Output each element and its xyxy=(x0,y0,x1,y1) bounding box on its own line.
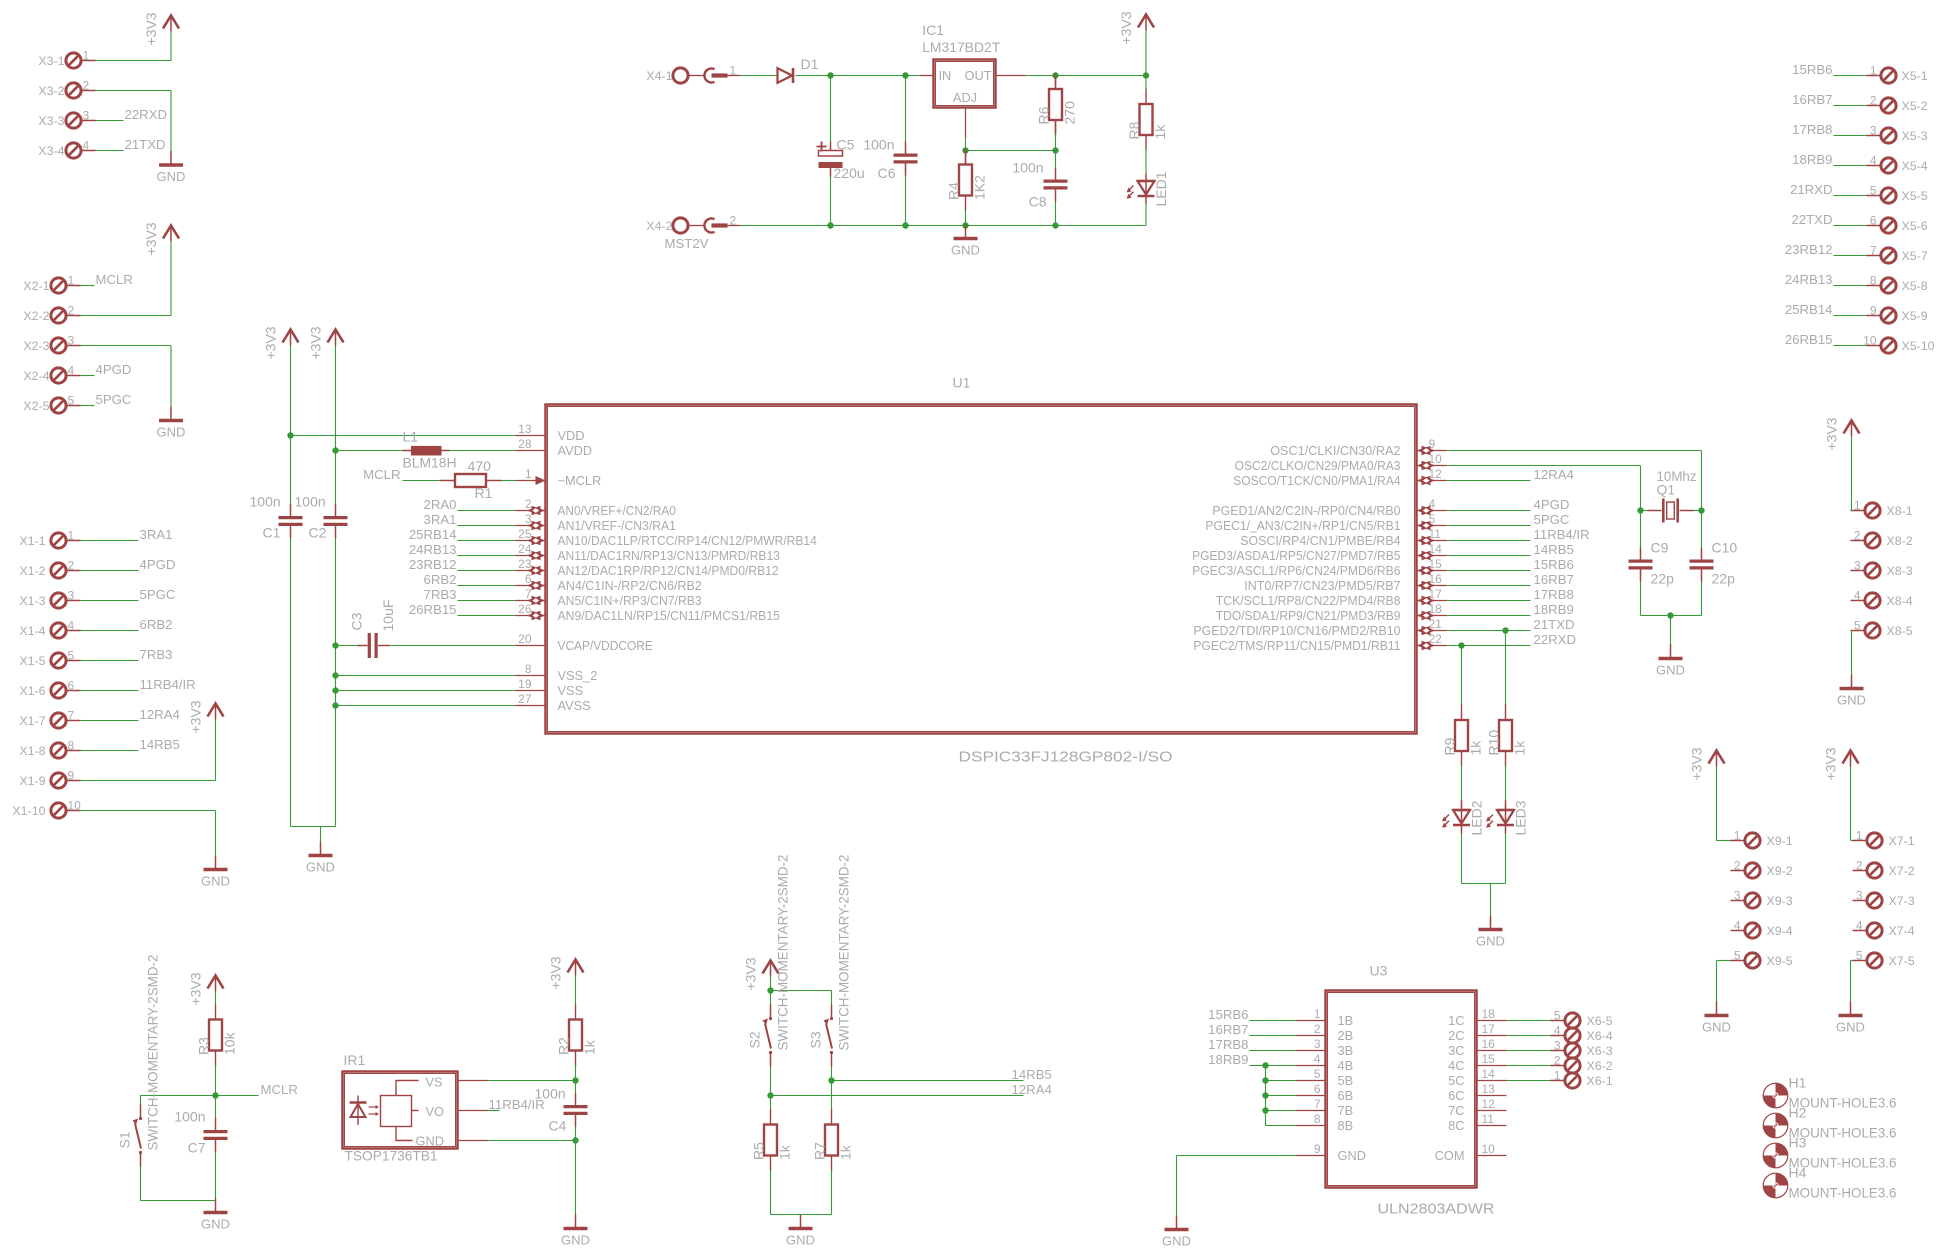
svg-text:1k: 1k xyxy=(1468,740,1484,756)
svg-text:R9: R9 xyxy=(1442,737,1458,755)
svg-text:21TXD: 21TXD xyxy=(1534,617,1575,632)
wire OSC1 to crystal xyxy=(1447,450,1702,452)
voltage regulator IC1 (LM317BD2T) xyxy=(922,22,1000,108)
capacitor C3 (10uF) xyxy=(349,600,397,658)
svg-text:TDO/SDA1/RP9/CN21/PMD3/RB9: TDO/SDA1/RP9/CN21/PMD3/RB9 xyxy=(1216,608,1401,623)
ground under C4 xyxy=(561,1215,590,1248)
svg-text:+3V3: +3V3 xyxy=(1823,747,1839,780)
svg-text:X1-2: X1-2 xyxy=(19,564,45,578)
svg-text:MCLR: MCLR xyxy=(261,1082,298,1097)
switch S3 (SWITCH-MOMENTARY-2SMD-2) xyxy=(808,854,852,1066)
svg-text:16RB7: 16RB7 xyxy=(1792,92,1832,107)
wire R5/R7 GND join xyxy=(771,1214,832,1216)
svg-text:5: 5 xyxy=(1870,184,1877,198)
svg-text:15RB6: 15RB6 xyxy=(1792,62,1832,77)
svg-text:X5-2: X5-2 xyxy=(1902,99,1928,113)
svg-text:11RB4/IR: 11RB4/IR xyxy=(140,677,196,692)
U1 pin 2 (AN0/VREF+/CN2/RA0) xyxy=(516,497,676,518)
svg-text:18: 18 xyxy=(1429,602,1443,616)
U1 pin 11 (SOSCI/RP4/CN1/PMBE/RB4) xyxy=(1240,527,1446,548)
node ADJ/R4 xyxy=(962,147,968,153)
svg-text:X1-9: X1-9 xyxy=(19,774,45,788)
svg-text:GND: GND xyxy=(306,860,335,875)
U1 pin 8 (VSS_2) xyxy=(516,662,598,683)
svg-text:C8: C8 xyxy=(1029,194,1047,210)
svg-text:14RB5: 14RB5 xyxy=(1012,1067,1052,1082)
svg-text:3: 3 xyxy=(1856,889,1863,903)
svg-text:5: 5 xyxy=(1734,949,1741,963)
connector pad X5-9 xyxy=(1867,304,1928,324)
node rail C5 xyxy=(827,222,833,228)
svg-text:X1-1: X1-1 xyxy=(19,534,45,548)
wire X1-9 to +3V3 xyxy=(81,780,216,782)
U3 pin 16 (3C) xyxy=(1448,1037,1506,1058)
svg-text:100n: 100n xyxy=(295,494,326,510)
wire C7 bottom xyxy=(215,1152,217,1201)
connector pad X1-6 xyxy=(19,679,80,699)
svg-text:DSPIC33FJ128GP802-I/SO: DSPIC33FJ128GP802-I/SO xyxy=(959,749,1173,766)
svg-text:ADJ: ADJ xyxy=(953,90,977,105)
svg-text:220u: 220u xyxy=(834,165,865,181)
wire C7 top xyxy=(215,1096,217,1119)
node R6/C8 xyxy=(1052,147,1058,153)
power +3V3 at C2 xyxy=(308,326,344,359)
wire net 11RB4/IR from IR1 VO xyxy=(488,1110,500,1112)
connector pad X2-1 xyxy=(23,274,80,294)
svg-text:15: 15 xyxy=(1482,1052,1496,1066)
U3 pin 14 (5C) xyxy=(1448,1067,1506,1088)
switch S1 (SWITCH-MOMENTARY-2SMD-2) xyxy=(117,954,161,1166)
svg-text:AN9/DAC1LN/RP15/CN11/PMCS1/RB1: AN9/DAC1LN/RP15/CN11/PMCS1/RB15 xyxy=(558,608,780,623)
svg-text:12: 12 xyxy=(1482,1097,1496,1111)
svg-text:7C: 7C xyxy=(1448,1103,1464,1118)
node VDD branch xyxy=(287,432,293,438)
svg-text:GND: GND xyxy=(786,1233,815,1248)
ground under R5/R7 xyxy=(786,1215,815,1248)
svg-text:X4-1: X4-1 xyxy=(646,69,672,83)
U1 pin 14 (PGED3/ASDA1/RP5/CN27/PMD7/RB5) xyxy=(1192,542,1446,563)
connector pad X2-3 xyxy=(23,334,80,354)
wire S3 to 14RB5 node xyxy=(831,1067,833,1081)
svg-text:R7: R7 xyxy=(812,1142,828,1160)
wire net 4PGD from X1-2 xyxy=(81,570,139,572)
svg-text:6B: 6B xyxy=(1338,1088,1354,1103)
svg-text:MST2V: MST2V xyxy=(665,236,709,251)
LED LED3 xyxy=(1486,800,1529,835)
connector pad X6-3 xyxy=(1551,1039,1613,1059)
svg-text:100n: 100n xyxy=(174,1109,205,1125)
resistor R6 (270) xyxy=(1036,74,1078,136)
wire R2 to VS node xyxy=(575,1065,577,1081)
ground power rail xyxy=(951,225,980,258)
svg-text:2: 2 xyxy=(525,497,532,511)
connector pad X5-2 xyxy=(1867,94,1928,114)
resistor R1 (470) xyxy=(440,458,502,501)
wire net 22TXD to X5-6 xyxy=(1834,225,1867,227)
wire X3-1 to +3V3 xyxy=(96,60,172,62)
svg-text:X2-2: X2-2 xyxy=(23,309,49,323)
node VSS_2 branch xyxy=(332,672,338,678)
svg-text:GND: GND xyxy=(561,1233,590,1248)
node R9 branch on 22RXD xyxy=(1458,642,1464,648)
wire ground rail X4-2 to LED1 xyxy=(741,225,1147,227)
wire +3V3 to C1 column xyxy=(290,346,292,436)
svg-text:U1: U1 xyxy=(953,375,971,391)
svg-text:22RXD: 22RXD xyxy=(125,107,168,122)
svg-text:H1: H1 xyxy=(1789,1075,1807,1091)
svg-text:2RA0: 2RA0 xyxy=(424,497,457,512)
svg-text:5PGC: 5PGC xyxy=(140,587,176,602)
wire net 15RB6 from U1 xyxy=(1447,570,1531,572)
resistor R10 (1k) xyxy=(1486,705,1528,767)
svg-text:7: 7 xyxy=(1870,244,1877,258)
svg-text:X3-1: X3-1 xyxy=(38,54,64,68)
svg-text:22RXD: 22RXD xyxy=(1534,632,1577,647)
mount hole H3 (MOUNT-HOLE3.6) xyxy=(1763,1143,1788,1168)
svg-text:5B: 5B xyxy=(1338,1073,1354,1088)
svg-text:6: 6 xyxy=(1314,1082,1321,1096)
svg-text:X1-3: X1-3 xyxy=(19,594,45,608)
svg-text:R5: R5 xyxy=(751,1142,767,1160)
node AVSS branch xyxy=(332,702,338,708)
svg-text:MCLR: MCLR xyxy=(363,467,400,482)
svg-text:X5-3: X5-3 xyxy=(1902,129,1928,143)
svg-text:X6-3: X6-3 xyxy=(1587,1044,1613,1058)
svg-text:3RA1: 3RA1 xyxy=(140,527,173,542)
svg-text:X9-5: X9-5 xyxy=(1767,954,1793,968)
svg-text:GND: GND xyxy=(1837,693,1866,708)
svg-text:X1-7: X1-7 xyxy=(19,714,45,728)
svg-text:24: 24 xyxy=(518,542,532,556)
svg-text:GND: GND xyxy=(951,243,980,258)
svg-text:6RB2: 6RB2 xyxy=(424,572,457,587)
svg-text:+3V3: +3V3 xyxy=(143,222,159,255)
wire net 17RB8 to X5-3 xyxy=(1834,135,1867,137)
connector pad X3-4 xyxy=(38,139,95,159)
svg-text:13: 13 xyxy=(518,422,532,436)
power +3V3 near X7 xyxy=(1823,747,1859,780)
node R2/C4/VS xyxy=(572,1077,578,1083)
node R10 branch on 21TXD xyxy=(1502,627,1508,633)
wire C4 to GND xyxy=(575,1141,577,1215)
wire U3 GND pin xyxy=(1177,1155,1296,1157)
connector pad X1-1 xyxy=(19,529,80,549)
svg-text:100n: 100n xyxy=(250,494,281,510)
svg-text:H4: H4 xyxy=(1789,1165,1807,1181)
connector pad X8-3 xyxy=(1851,559,1913,579)
svg-text:12RA4: 12RA4 xyxy=(1012,1082,1052,1097)
svg-text:27: 27 xyxy=(518,692,532,706)
wire net 14RB5 xyxy=(832,1080,1024,1082)
node C3 branch xyxy=(332,642,338,648)
U1 pin 18 (TDO/SDA1/RP9/CN21/PMD3/RB9) xyxy=(1216,602,1447,623)
svg-text:S3: S3 xyxy=(808,1031,824,1048)
svg-text:5C: 5C xyxy=(1448,1073,1464,1088)
U1 pin 27 (AVSS) xyxy=(516,692,591,713)
svg-text:21TXD: 21TXD xyxy=(125,137,166,152)
svg-text:SWITCH-MOMENTARY-2SMD-2: SWITCH-MOMENTARY-2SMD-2 xyxy=(836,854,852,1050)
svg-text:14: 14 xyxy=(1482,1067,1496,1081)
svg-text:5: 5 xyxy=(68,649,75,663)
capacitor C1 xyxy=(279,504,303,538)
svg-text:8: 8 xyxy=(68,739,75,753)
svg-text:PGEC1/_AN3/C2IN+/RP1/CN5/RB1: PGEC1/_AN3/C2IN+/RP1/CN5/RB1 xyxy=(1205,518,1400,533)
svg-text:+3V3: +3V3 xyxy=(308,326,324,359)
U3 pin 15 (4C) xyxy=(1448,1052,1506,1073)
svg-text:3: 3 xyxy=(1314,1037,1321,1051)
svg-text:4: 4 xyxy=(1734,919,1741,933)
resistor R3 (10k) xyxy=(196,1004,238,1066)
U3 pin 1 (1B) xyxy=(1296,1007,1354,1028)
driver U3 (ULN2803ADWR) xyxy=(1326,963,1495,1218)
svg-text:18: 18 xyxy=(1482,1007,1496,1021)
U1 pin 20 (VCAP/VDDCORE) xyxy=(516,632,653,653)
U1 pin 17 (TCK/SCL1/RP8/CN22/PMD4/RB8) xyxy=(1216,587,1447,608)
wire X4-1 to D1 xyxy=(741,75,778,77)
svg-text:22p: 22p xyxy=(1651,571,1675,587)
node OSC2/C9/crystal xyxy=(1637,507,1643,513)
svg-text:X6-2: X6-2 xyxy=(1587,1059,1613,1073)
svg-text:X7-5: X7-5 xyxy=(1889,954,1915,968)
wire net 16RB7 from U1 xyxy=(1447,585,1531,587)
U1 pin 12 (SOSCO/T1CK/CN0/PMA1/RA4) xyxy=(1233,467,1446,488)
svg-text:8B: 8B xyxy=(1338,1118,1354,1133)
svg-text:X7-2: X7-2 xyxy=(1889,864,1915,878)
svg-text:GND: GND xyxy=(1162,1234,1191,1249)
svg-text:OSC1/CLKI/CN30/RA2: OSC1/CLKI/CN30/RA2 xyxy=(1270,443,1400,458)
svg-text:25RB14: 25RB14 xyxy=(409,527,457,542)
svg-text:10: 10 xyxy=(1429,452,1443,466)
svg-text:4: 4 xyxy=(83,139,90,153)
power +3V3 near X1 xyxy=(188,700,224,733)
svg-text:1: 1 xyxy=(1314,1007,1321,1021)
svg-text:X9-3: X9-3 xyxy=(1767,894,1793,908)
svg-text:9: 9 xyxy=(1314,1142,1321,1156)
svg-text:VSS_2: VSS_2 xyxy=(558,668,598,683)
svg-text:R10: R10 xyxy=(1486,730,1502,756)
node rail C8 xyxy=(1052,222,1058,228)
svg-text:5PGC: 5PGC xyxy=(96,392,132,407)
svg-text:X5-6: X5-6 xyxy=(1902,219,1928,233)
svg-text:3: 3 xyxy=(83,109,90,123)
wire net MCLR from X2-1 xyxy=(81,285,95,287)
svg-text:1: 1 xyxy=(1870,64,1877,78)
wire X3-2 to GND xyxy=(96,90,172,92)
svg-text:4: 4 xyxy=(68,619,75,633)
svg-text:21: 21 xyxy=(1429,617,1443,631)
svg-text:AN10/DAC1LP/RTCC/RP14/CN12/PMW: AN10/DAC1LP/RTCC/RP14/CN12/PMWR/RB14 xyxy=(558,533,817,548)
wire C9/C10 to GND xyxy=(1640,582,1642,616)
wire S2 node to R5 xyxy=(770,1096,772,1110)
wire C10 top xyxy=(1701,511,1703,548)
U1 pin 7 (AN5/C1IN+/RP3/CN7/RB3) xyxy=(516,587,702,608)
connector pad X9-3 xyxy=(1731,889,1793,909)
wire C2 top xyxy=(335,451,337,505)
wire LED1 leads xyxy=(1145,174,1147,182)
svg-text:X5-9: X5-9 xyxy=(1902,309,1928,323)
svg-text:2B: 2B xyxy=(1338,1028,1354,1043)
node 18RB9 chain at 1110 xyxy=(1262,1107,1268,1113)
wire net 15RB6 to X5-1 xyxy=(1834,75,1867,77)
svg-text:17: 17 xyxy=(1429,587,1443,601)
connector pin X4-2 xyxy=(646,214,740,234)
connector pad X5-4 xyxy=(1867,154,1928,174)
wire net 14RB5 from U1 xyxy=(1447,555,1531,557)
wire R1 to U1 pin 1 xyxy=(502,480,516,482)
svg-text:10k: 10k xyxy=(222,1031,238,1055)
svg-text:8C: 8C xyxy=(1448,1118,1464,1133)
connector pad X5-5 xyxy=(1867,184,1928,204)
svg-text:X8-4: X8-4 xyxy=(1887,594,1913,608)
node 14RB5 junction xyxy=(828,1077,834,1083)
svg-text:AN0/VREF+/CN2/RA0: AN0/VREF+/CN2/RA0 xyxy=(558,503,676,518)
svg-text:H2: H2 xyxy=(1789,1105,1807,1121)
resistor R4 (1K2) xyxy=(946,149,988,211)
svg-text:15RB6: 15RB6 xyxy=(1208,1007,1248,1022)
wire chain to U3 pin at 1125 xyxy=(1266,1125,1296,1127)
svg-text:470: 470 xyxy=(468,458,492,474)
svg-text:100n: 100n xyxy=(863,137,894,153)
wire D1 to IC1 IN xyxy=(796,75,920,77)
LED LED1 xyxy=(1127,171,1170,206)
wire VDD net xyxy=(291,435,516,437)
LED LED2 xyxy=(1442,800,1485,835)
svg-text:270: 270 xyxy=(1062,101,1078,125)
svg-text:17RB8: 17RB8 xyxy=(1534,587,1574,602)
wire X9-1 to +3V3 xyxy=(1716,767,1718,841)
svg-text:1k: 1k xyxy=(1152,124,1168,140)
svg-text:X2-3: X2-3 xyxy=(23,339,49,353)
svg-text:11: 11 xyxy=(1429,527,1442,541)
wire net 3RA1 from X1-1 xyxy=(81,540,139,542)
svg-text:GND: GND xyxy=(1476,934,1505,949)
U1 pin 24 (AN11/DAC1RN/RP13/CN13/PMRD/RB13) xyxy=(516,542,780,563)
svg-text:5: 5 xyxy=(1429,512,1436,526)
svg-text:X5-8: X5-8 xyxy=(1902,279,1928,293)
svg-text:2: 2 xyxy=(1870,94,1877,108)
U1 pin 3 (AN1/VREF-/CN3/RA1) xyxy=(516,512,676,533)
svg-text:6: 6 xyxy=(525,572,532,586)
node at R6 top xyxy=(1052,72,1058,78)
wire U3 to X6-3 xyxy=(1507,1050,1551,1052)
capacitor C8 xyxy=(1044,168,1068,202)
svg-text:4: 4 xyxy=(1314,1052,1321,1066)
svg-text:4: 4 xyxy=(1554,1024,1561,1038)
wire C5 leads xyxy=(830,76,832,142)
wire net 11RB4/IR from X1-6 xyxy=(81,690,139,692)
connector pad X6-1 xyxy=(1551,1069,1613,1089)
node S2/S3 supply xyxy=(767,987,773,993)
svg-text:9: 9 xyxy=(1870,304,1877,318)
svg-text:SOSCI/RP4/CN1/PMBE/RB4: SOSCI/RP4/CN1/PMBE/RB4 xyxy=(1240,533,1400,548)
svg-text:23: 23 xyxy=(518,557,532,571)
ground near X3 xyxy=(157,151,186,184)
svg-text:VS: VS xyxy=(426,1075,443,1090)
U3 pin 17 (2C) xyxy=(1448,1022,1506,1043)
connector pad X7-5 xyxy=(1853,949,1915,969)
svg-text:3: 3 xyxy=(1554,1039,1561,1053)
svg-text:9: 9 xyxy=(1429,437,1436,451)
svg-text:8: 8 xyxy=(525,662,532,676)
wire X1-10 to GND xyxy=(81,810,216,812)
svg-text:X5-7: X5-7 xyxy=(1902,249,1928,263)
svg-text:1: 1 xyxy=(83,49,90,63)
wire supply to S3 xyxy=(771,990,832,992)
U1 pin 22 (PGEC2/TMS/RP11/CN15/PMD1/RB11) xyxy=(1193,632,1446,653)
svg-text:18RB9: 18RB9 xyxy=(1534,602,1574,617)
wire net 25RB14 to X5-9 xyxy=(1834,315,1867,317)
connector pad X9-2 xyxy=(1731,859,1793,879)
svg-text:1K2: 1K2 xyxy=(972,175,988,200)
wire net 16RB7 to X5-2 xyxy=(1834,105,1867,107)
U3 pin 7 (7B) xyxy=(1296,1097,1354,1118)
svg-text:26: 26 xyxy=(518,602,532,616)
svg-text:X3-3: X3-3 xyxy=(38,114,64,128)
power +3V3 near X9 xyxy=(1689,747,1725,780)
svg-text:16RB7: 16RB7 xyxy=(1534,572,1574,587)
svg-text:7: 7 xyxy=(525,587,532,601)
svg-text:U3: U3 xyxy=(1370,963,1388,979)
U1 pin 1 (~MCLR) xyxy=(516,467,602,488)
U1 pin 9 (OSC1/CLKI/CN30/RA2) xyxy=(1270,437,1446,458)
connector pad X1-7 xyxy=(19,709,80,729)
svg-text:AN4/C1IN-/RP2/CN6/RB2: AN4/C1IN-/RP2/CN6/RB2 xyxy=(558,578,702,593)
ground under C7 xyxy=(201,1199,230,1232)
svg-text:24RB13: 24RB13 xyxy=(409,542,457,557)
wire net 26RB15 to X5-10 xyxy=(1834,345,1867,347)
svg-text:Q1: Q1 xyxy=(1657,482,1676,498)
U1 pin 15 (PGEC3/ASCL1/RP6/CN24/PMD6/RB6) xyxy=(1192,557,1446,578)
svg-text:2: 2 xyxy=(1734,859,1741,873)
connector pad X2-4 xyxy=(23,364,80,384)
svg-text:4: 4 xyxy=(1429,497,1436,511)
svg-text:D1: D1 xyxy=(801,56,819,72)
node at +3V3/R8 xyxy=(1143,72,1149,78)
wire S3 node to R7 xyxy=(831,1081,833,1110)
connector pad X7-3 xyxy=(1853,889,1915,909)
svg-text:100n: 100n xyxy=(535,1086,566,1102)
wire net 3RA1 to U1 xyxy=(458,525,516,527)
svg-text:17RB8: 17RB8 xyxy=(1208,1037,1248,1052)
wire C1 bottom to GND join xyxy=(290,538,292,827)
svg-text:LED3: LED3 xyxy=(1513,800,1529,835)
node 18RB9 chain at 1080 xyxy=(1262,1077,1268,1083)
svg-text:LED2: LED2 xyxy=(1469,800,1485,835)
wire chain to U3 pin at 1095 xyxy=(1266,1095,1296,1097)
capacitor C10 xyxy=(1690,548,1714,582)
svg-text:2: 2 xyxy=(1856,859,1863,873)
svg-text:X9-1: X9-1 xyxy=(1767,834,1793,848)
wire S1 bottom xyxy=(140,1167,142,1201)
svg-text:L1: L1 xyxy=(403,429,419,445)
ground near X8 xyxy=(1837,675,1866,708)
svg-text:C4: C4 xyxy=(549,1118,567,1134)
svg-text:16: 16 xyxy=(1429,572,1443,586)
U3 pin 18 (1C) xyxy=(1448,1007,1506,1028)
wire C6 leads xyxy=(905,76,907,142)
wire net 22RXD from X3-3 xyxy=(96,120,124,122)
wire net 24RB13 to X5-8 xyxy=(1834,285,1867,287)
connector pad X1-5 xyxy=(19,649,80,669)
svg-text:GND: GND xyxy=(201,1217,230,1232)
svg-text:X9-4: X9-4 xyxy=(1767,924,1793,938)
connector pad X1-10 xyxy=(12,799,81,819)
wire net 6RB2 to U1 xyxy=(458,585,516,587)
svg-text:VSS: VSS xyxy=(558,683,584,698)
U3 pin 10 (COM) xyxy=(1435,1142,1507,1163)
svg-text:IC1: IC1 xyxy=(922,22,944,38)
microcontroller U1 (DSPIC33FJ128GP802-I/SO) xyxy=(546,375,1417,766)
